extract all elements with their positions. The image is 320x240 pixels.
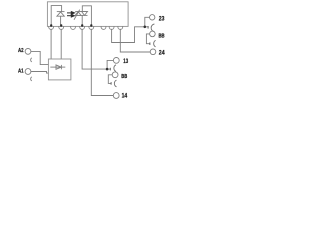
wire tee to terminal 13 bbox=[107, 60, 113, 69]
terminal 14 circle bbox=[113, 93, 119, 99]
wire cup5 to terminal 14 bbox=[91, 29, 113, 96]
terminal BB circle (bottom group) bbox=[112, 72, 118, 78]
terminal 23 circle bbox=[150, 15, 155, 20]
wire BB loop to contact 14 bbox=[108, 75, 112, 84]
cup 7 bbox=[109, 26, 114, 29]
wire BB loop to contact 24 bbox=[146, 34, 150, 44]
svg-text:BB: BB bbox=[121, 74, 127, 80]
cup 8 bbox=[118, 26, 123, 29]
coil box with diode bbox=[48, 59, 71, 80]
terminal 24 circle bbox=[150, 49, 156, 55]
socket cups row bbox=[49, 26, 123, 29]
module housing box bbox=[47, 2, 128, 27]
LED arrows bbox=[67, 12, 75, 17]
contact socket 13 bbox=[114, 65, 116, 72]
contact tick 23 bbox=[147, 26, 149, 29]
wire pin1 to diode D1 top bbox=[51, 6, 61, 26]
contact tick 13 bbox=[109, 68, 111, 71]
contact tick 24 bbox=[149, 42, 151, 45]
diode D1 bbox=[57, 12, 65, 26]
wire A2 to coil box bbox=[31, 51, 49, 64]
wire A1 to coil box bbox=[31, 72, 49, 74]
socket arc below A1 bbox=[31, 77, 32, 81]
wire cup7 to contact 23 tee bbox=[112, 27, 149, 43]
cup 3 bbox=[71, 26, 76, 29]
wire cup8 to terminal 24 bbox=[120, 29, 150, 52]
svg-text:23: 23 bbox=[159, 17, 165, 23]
wire cup4 to contact 13 tee bbox=[82, 29, 110, 69]
svg-text:24: 24 bbox=[159, 51, 165, 57]
cup 1 bbox=[49, 26, 54, 29]
suppressor diode pair U1 bbox=[74, 10, 88, 20]
cup 4 bbox=[80, 26, 85, 29]
contact socket 14 bbox=[114, 80, 116, 87]
pin dot 4 (housing bottom) bbox=[81, 24, 83, 27]
terminal BB circle (top group) bbox=[150, 31, 156, 37]
wire cup1 to coil box bbox=[50, 29, 52, 59]
svg-text:A1: A1 bbox=[18, 68, 24, 74]
wire tee to terminal 23 bbox=[145, 17, 150, 27]
diode D2 inside coil box bbox=[50, 65, 65, 69]
cup 2 bbox=[59, 26, 64, 29]
contact socket 23 bbox=[151, 24, 154, 32]
terminal 13 circle bbox=[113, 58, 119, 64]
svg-text:14: 14 bbox=[122, 93, 128, 99]
pin dot 5 (housing bottom) bbox=[90, 24, 92, 27]
pin dot 2 (housing bottom) bbox=[60, 24, 62, 27]
terminal A1 bbox=[18, 68, 48, 81]
contact socket 24 bbox=[154, 40, 156, 47]
svg-text:A2: A2 bbox=[18, 48, 24, 54]
wire cup2 to coil box bbox=[60, 29, 62, 59]
wire U1 bottom to pin4 bbox=[81, 15, 83, 25]
svg-text:13: 13 bbox=[123, 59, 128, 65]
socket arc below A2 bbox=[31, 58, 32, 62]
contact group 13/BB/14 bbox=[108, 58, 119, 99]
junction dot tee 13 bbox=[106, 68, 109, 71]
cup 5 bbox=[89, 26, 94, 29]
wire U1 top to pin5 bbox=[82, 6, 91, 25]
junction dot tee 23 bbox=[144, 26, 147, 29]
svg-text:BB: BB bbox=[159, 34, 165, 40]
pin dot 1 (housing bottom) bbox=[50, 24, 52, 27]
contact group 23/BB/24 bbox=[146, 15, 155, 55]
terminal A2 bbox=[18, 48, 48, 65]
cup 6 bbox=[101, 26, 106, 29]
contact tick 14 bbox=[110, 82, 112, 85]
